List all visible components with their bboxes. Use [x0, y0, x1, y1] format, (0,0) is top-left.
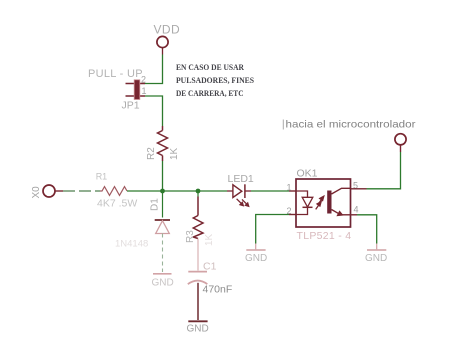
- diode D1 cathode bar: [155, 219, 170, 221]
- svg-text:GND: GND: [187, 324, 209, 335]
- wire node B down to R3: [197, 191, 199, 197]
- diode D1 triangle: [156, 221, 170, 234]
- wire OK1 pin2 to ground: [256, 215, 289, 244]
- wire OK1 pin4 to ground: [357, 215, 377, 244]
- connector X0 pad circle: [43, 185, 55, 197]
- svg-text:R1: R1: [96, 171, 108, 181]
- capacitor C1 bottom curved plate: [188, 281, 208, 285]
- pin stub X0: [55, 190, 63, 192]
- OK1 pin 4 stub: [351, 214, 358, 216]
- svg-text:R3: R3: [185, 230, 196, 243]
- OK1 phototransistor base bar: [327, 191, 331, 214]
- pin stub VDD: [162, 48, 164, 55]
- wire D1 anode to ground (dim): [162, 234, 164, 273]
- wire X0 to R1 (dim): [63, 190, 100, 192]
- wire R1 to node A: [127, 190, 163, 192]
- svg-text:1: 1: [142, 86, 147, 96]
- capacitor C1 top plate: [188, 271, 207, 273]
- svg-text:4: 4: [354, 205, 359, 215]
- microcontroller connector stub: [400, 145, 402, 152]
- svg-text:DE CARRERA, ETC: DE CARRERA, ETC: [176, 88, 244, 98]
- resistor R1: [100, 187, 127, 196]
- wire C1 to ground: [197, 283, 199, 320]
- svg-text:D1: D1: [150, 198, 161, 211]
- svg-text:GND: GND: [152, 277, 174, 288]
- wire LED1 to OK1 pin1: [251, 190, 289, 192]
- OK1 internal LED cathode bar: [303, 206, 313, 208]
- LED1 anode stub: [227, 190, 233, 192]
- supply pin VDD circle: [157, 36, 168, 47]
- svg-text:OK1: OK1: [297, 168, 318, 180]
- wire VDD to JP1 pin2: [145, 55, 163, 84]
- svg-text:2: 2: [141, 74, 146, 84]
- wire node A to node B: [163, 190, 199, 192]
- OK1 pin 2 stub: [289, 214, 296, 216]
- OK1 internal LED wiring: [296, 191, 308, 197]
- jumper JP1 pin 2 stub: [126, 83, 146, 85]
- wire node B to LED1: [198, 190, 227, 192]
- resistor R3: [193, 197, 203, 239]
- svg-text:VDD: VDD: [154, 23, 181, 37]
- ground bar left of OK1: [246, 249, 265, 251]
- wire node A down to D1: [162, 191, 164, 218]
- svg-text:EN CASO DE USAR: EN CASO DE USAR: [176, 62, 245, 72]
- LED1 triangle: [233, 185, 242, 198]
- svg-text:1K: 1K: [169, 147, 180, 160]
- svg-text:4K7 .5W: 4K7 .5W: [97, 198, 137, 210]
- resistor R2: [158, 126, 168, 161]
- ground bar under C1: [188, 320, 207, 322]
- OK1 phototransistor collector: [332, 188, 351, 194]
- OK1 pin 5 stub: [351, 188, 367, 190]
- OK1 pin 1 stub: [289, 190, 296, 192]
- text origin tick: [282, 120, 284, 130]
- svg-text:GND: GND: [245, 253, 267, 264]
- ground pin stub left of OK1: [255, 244, 257, 250]
- wire R2 to node A: [162, 161, 164, 191]
- microcontroller connector circle: [395, 134, 406, 145]
- jumper JP1 pin 1 stub: [126, 95, 146, 97]
- wire JP1 pin1 to R2: [145, 96, 163, 126]
- svg-text:hacia el microcontrolador: hacia el microcontrolador: [286, 119, 417, 131]
- OK1 internal light arrows: [316, 196, 324, 209]
- svg-text:1: 1: [287, 183, 292, 193]
- svg-text:R2: R2: [146, 147, 157, 160]
- node B junction: [196, 189, 201, 194]
- ground bar under D1: [153, 273, 172, 275]
- OK1 internal LED triangle: [302, 197, 313, 207]
- ground pin stub right of OK1: [376, 244, 378, 250]
- optocoupler OK1 box: [296, 179, 351, 227]
- OK1 internal LED to pin2: [296, 207, 308, 214]
- svg-text:TLP521 - 4: TLP521 - 4: [297, 230, 352, 242]
- svg-text:PULL - UP: PULL - UP: [88, 68, 143, 80]
- wire R3 to C1 (dim): [197, 239, 199, 271]
- jumper JP1 bar: [134, 80, 140, 100]
- svg-text:PULSADORES, FINES: PULSADORES, FINES: [176, 75, 254, 85]
- node A junction: [160, 189, 165, 194]
- ground bar right of OK1: [367, 249, 386, 251]
- svg-text:GND: GND: [365, 253, 387, 264]
- LED1 light arrows: [237, 199, 249, 207]
- note text block: [176, 62, 254, 98]
- LED1 cathode stub: [245, 190, 251, 192]
- wire OK1 pin5 to microcontroller connector: [367, 152, 401, 189]
- svg-text:470nF: 470nF: [203, 284, 233, 296]
- OK1 phototransistor emitter with arrow: [332, 210, 351, 216]
- svg-text:1N4148: 1N4148: [115, 239, 148, 250]
- svg-text:1K: 1K: [204, 233, 215, 246]
- LED1 cathode bar: [244, 184, 246, 198]
- svg-text:LED1: LED1: [228, 173, 254, 185]
- svg-text:X0: X0: [31, 186, 42, 199]
- svg-text:JP1: JP1: [122, 100, 140, 112]
